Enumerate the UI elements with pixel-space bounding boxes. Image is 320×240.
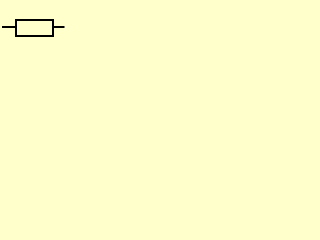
- resistor R1: [16, 20, 53, 36]
- wire: [2, 26, 16, 28]
- wire: [53, 26, 65, 28]
